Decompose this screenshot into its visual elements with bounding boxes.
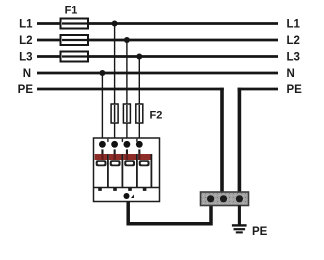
SPD top divider nubs (107, 139, 137, 142)
svg-text:PE: PE (287, 84, 303, 96)
wire SPD bottom to busbar (128, 202, 211, 224)
fuse F2c on L3 tap (136, 104, 143, 123)
node SPD top terminal 2 (L1) (111, 141, 118, 148)
node N label right (287, 68, 295, 80)
svg-text:L1: L1 (19, 19, 33, 31)
wire L3 bus line (37, 55, 278, 58)
SPD module 4 red cap (138, 154, 151, 160)
SPD ground terminal mark (131, 195, 134, 199)
svg-text:PE: PE (18, 84, 34, 96)
svg-text:L3: L3 (19, 52, 32, 64)
wire L2 bus line (37, 39, 278, 42)
node L2 label left (19, 35, 32, 47)
wire PE left drop to busbar (220, 88, 224, 193)
fuse F1c on L3 (61, 52, 89, 62)
svg-text:L3: L3 (287, 52, 300, 64)
node junction dot on L3 (136, 54, 142, 60)
node SPD top terminal 4 (L3) (136, 141, 143, 148)
wire tap from L2 down to SPD (126, 40, 128, 139)
svg-text:L2: L2 (19, 35, 32, 47)
node PE label left (18, 84, 34, 96)
fuse F2b on L2 tap (123, 104, 130, 123)
SPD module 3 red cap (123, 154, 136, 160)
SPD base teeth (98, 188, 146, 191)
node PE label right (287, 84, 303, 96)
SPD screw marks below terminals (101, 149, 140, 154)
wire PE bus line left segment (37, 88, 224, 91)
node SPD top terminal 1 (N) (99, 141, 106, 148)
wire tap from N down to SPD (101, 73, 103, 139)
ground earth symbol (232, 225, 247, 232)
node L1 label left (19, 19, 33, 31)
SPD module 1 status window (96, 160, 107, 166)
fuse F2 label (150, 110, 163, 122)
SPD module divider lines (108, 154, 151, 188)
node junction dot on L2 (124, 37, 130, 43)
node L1 label right (287, 19, 301, 31)
SPD module 3 status window (124, 160, 135, 166)
fuse F1b on L2 (61, 35, 89, 45)
SPD module 2 red cap (109, 154, 122, 160)
fuse F1 label (65, 5, 78, 17)
SPD module 1 red cap (95, 154, 107, 160)
wire PE right drop to busbar (238, 88, 242, 193)
wire busbar to earth (238, 205, 241, 225)
svg-text:F2: F2 (150, 110, 163, 122)
SPD module 4 status window (139, 160, 150, 166)
node busbar terminal 3 (236, 195, 243, 202)
node junction dot on L1 (112, 21, 118, 27)
wire tap from L1 down to SPD (114, 24, 116, 140)
svg-text:L2: L2 (287, 35, 300, 47)
SPD base separation line (94, 187, 160, 189)
node junction dot on N (99, 70, 105, 76)
SPD red cap screw smudges (101, 154, 140, 160)
wire tap from L3 down to SPD (138, 57, 140, 140)
svg-text:L1: L1 (287, 19, 301, 31)
node L3 label left (19, 52, 32, 64)
node L2 label right (287, 35, 300, 47)
node PE earth label (252, 226, 268, 238)
svg-text:F1: F1 (65, 5, 78, 17)
fuse F1a on L1 (61, 19, 89, 29)
fuse F2a on L1 tap (111, 104, 118, 123)
svg-text:N: N (287, 68, 295, 80)
node busbar terminal 2 (220, 195, 227, 202)
node busbar terminal 1 (207, 195, 214, 202)
wire L1 bus line (37, 22, 278, 25)
node SPD ground terminal dot (124, 193, 130, 199)
node SPD top terminal 3 (L2) (124, 141, 131, 148)
node L3 label right (287, 52, 300, 64)
svg-text:N: N (23, 68, 31, 80)
svg-text:PE: PE (252, 226, 268, 238)
wire N bus line (37, 72, 278, 75)
wire PE bus line right segment (238, 88, 278, 91)
surge arrester U1 SPD block outline (94, 138, 160, 202)
SPD module 2 status window (110, 160, 121, 166)
node N label left (23, 68, 31, 80)
